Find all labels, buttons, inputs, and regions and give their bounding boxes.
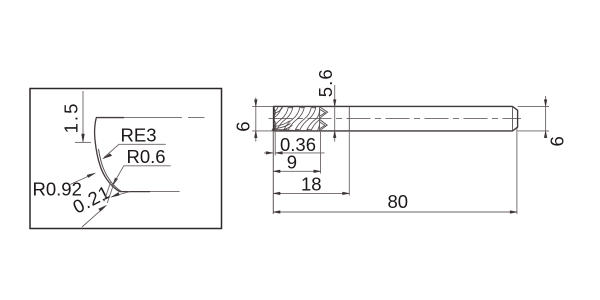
svg-text:0.36: 0.36 <box>280 134 316 155</box>
dimension 0.36 <box>264 134 325 155</box>
centerline <box>269 118 522 120</box>
svg-text:18: 18 <box>301 174 322 195</box>
dimension 6 right <box>518 96 568 146</box>
dimension 18 <box>273 174 349 195</box>
dimension 5.6 <box>315 68 336 141</box>
dimension 0.21 extension ticks <box>104 183 114 204</box>
dimension 9 <box>273 152 320 173</box>
label R0.6 leader <box>112 146 171 186</box>
svg-text:5.6: 5.6 <box>315 68 336 97</box>
dimension 0.21 arrows <box>82 179 130 228</box>
svg-text:9: 9 <box>287 152 297 173</box>
profile top flat line <box>96 117 205 119</box>
flute helical lines <box>272 107 320 131</box>
detail box frame <box>30 89 222 229</box>
neck-shank junction line <box>348 106 350 130</box>
svg-text:6: 6 <box>233 121 254 131</box>
svg-text:6: 6 <box>547 136 568 146</box>
extension line left long <box>272 131 274 214</box>
extension line 0.36 <box>274 131 276 156</box>
flute end boundary line <box>319 106 321 130</box>
extension line for 80 <box>516 128 518 214</box>
dimension 6 left <box>233 98 274 142</box>
dimension 0.21 rotated text <box>69 181 113 218</box>
tool body outline <box>274 106 518 130</box>
label RE3 leader <box>103 125 166 159</box>
svg-text:80: 80 <box>388 191 409 212</box>
svg-text:R0.6: R0.6 <box>127 146 166 167</box>
profile corner arc RE3 <box>95 118 120 192</box>
cutting end edge <box>273 106 275 130</box>
chamfer line at right end <box>512 106 514 130</box>
dimension 1.5 <box>61 91 92 142</box>
inner offset arc R0.6 <box>99 149 122 191</box>
profile bottom flat line <box>120 191 180 193</box>
svg-text:1.5: 1.5 <box>61 102 82 134</box>
svg-text:RE3: RE3 <box>121 125 157 146</box>
dimension 80 <box>273 191 517 213</box>
extension line for 18 <box>348 131 350 196</box>
label R0.92 leader <box>33 173 96 200</box>
flute pointed tips <box>320 107 328 131</box>
extension line for 9 <box>320 132 322 174</box>
